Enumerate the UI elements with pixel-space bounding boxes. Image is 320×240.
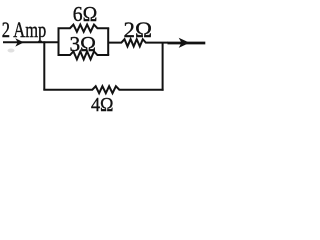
svg-text:3Ω: 3Ω (70, 34, 97, 56)
wire output run with resistor R3 2ohm (108, 39, 168, 46)
wire output lead (168, 42, 206, 45)
resistor R1 6ohm top branch (58, 25, 110, 32)
wire input lead (3, 41, 59, 43)
resistor R2 3ohm lower branch of box (58, 51, 110, 59)
wire right side of parallel box (107, 28, 109, 55)
faint scan smudge (8, 49, 15, 53)
svg-text:2Ω: 2Ω (124, 18, 153, 42)
output current arrowhead (179, 38, 190, 48)
wire left side of parallel box (58, 28, 60, 55)
svg-text:2 Amp: 2 Amp (2, 17, 47, 42)
svg-text:6Ω: 6Ω (73, 4, 98, 26)
svg-text:4Ω: 4Ω (91, 94, 114, 113)
wire bottom branch with resistor R4 4ohm (43, 86, 163, 93)
input current arrowhead (15, 38, 23, 46)
wire bottom loop right vertical (162, 43, 164, 91)
wire bottom loop left vertical (43, 41, 45, 89)
